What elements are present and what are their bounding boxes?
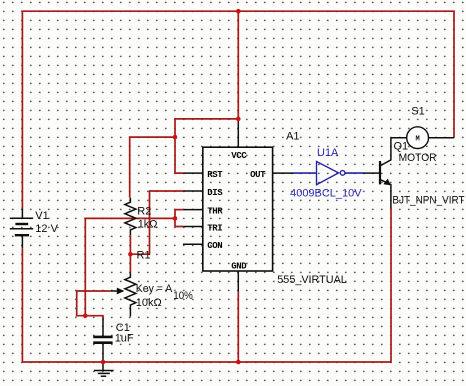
battery V1 plate short [15,223,28,225]
IC A1 555 box [203,147,273,271]
wire 555 OUT to inverter input (navy) [294,172,317,174]
wire R2 bottom to R1 top [129,235,131,272]
transistor Q1 emitter [381,180,391,209]
wire inverter output to base (navy) [345,172,364,174]
junction 555 GND bottom rail [236,360,241,365]
svg-text:12 V: 12 V [35,223,58,235]
inverter U1A triangle and bubble [317,162,345,185]
junction wiper bus node [83,313,88,318]
capacitor C1 bottom lead [102,344,104,362]
junction THR/TRI node [173,216,178,221]
battery V1 plate long bottom [10,228,33,230]
svg-text:S1: S1 [411,105,424,117]
junction top rail / VCC [236,9,241,14]
ground stub [102,362,104,371]
svg-text:MOTOR: MOTOR [399,152,437,164]
transistor Q1 collector [381,138,391,166]
pin stub RST [183,172,203,174]
capacitor C1 plate bottom [93,341,112,344]
pin stub DIS [183,190,203,192]
battery V1 bottom stub [21,235,23,248]
svg-text:R1: R1 [137,249,151,261]
svg-text:OUT: OUT [250,170,266,180]
svg-text:1uF: 1uF [115,333,134,345]
ground bar 1 [94,370,114,372]
pin stub TRI [183,226,203,228]
pin stub OUT [273,172,294,174]
junction C1 bottom rail [101,360,106,365]
motor S1 circle [407,127,429,149]
transistor Q1 base bar [379,161,381,184]
wire 555 GND to bottom rail [237,291,239,362]
wire bottom rail V1- to emitter [22,208,391,362]
motor S1 right lead [429,137,455,139]
potentiometer R1 wiper line [111,290,120,292]
svg-text:GND: GND [231,262,247,272]
svg-text:TRI: TRI [207,223,222,233]
wire DIS pin to R2/R1 junction [130,191,183,254]
junction RST node [173,135,178,140]
pin stub GND [237,271,239,291]
svg-text:BJT_NPN_VIRT: BJT_NPN_VIRT [392,195,464,207]
capacitor C1 plate top [93,336,112,339]
wire RST node to R2 top [130,137,175,198]
svg-text:1kΩ: 1kΩ [138,219,158,231]
pin stub VCC [237,121,239,148]
svg-text:M: M [415,136,419,144]
wire RST node to RST pin [175,137,183,173]
motor S1 left lead [391,137,407,139]
svg-text:A1: A1 [286,131,299,143]
wire THR-TRI bracket [175,210,183,227]
transistor Q1 base stub [364,172,380,174]
wire VCC drop from top rail [237,11,239,120]
svg-text:Q1: Q1 [394,141,409,153]
svg-text:Key = A: Key = A [136,283,173,295]
junction R2/R1 DIS node [128,252,133,257]
svg-text:DIS: DIS [207,188,223,198]
pin stub THR [183,209,203,211]
svg-text:4009BCL_10V: 4009BCL_10V [290,187,362,199]
wire top rail V1+ to right side [22,11,454,208]
potentiometer R1 wiper arrowhead [117,288,125,295]
svg-text:V1: V1 [35,210,48,222]
svg-text:10kΩ: 10kΩ [136,297,162,309]
svg-text:THR: THR [207,207,223,217]
svg-text:VCC: VCC [231,151,247,161]
svg-text:CON: CON [207,241,222,251]
pin stub CON [183,243,203,245]
svg-text:U1A: U1A [317,147,339,159]
transistor Q1 emitter arrowhead [383,179,391,186]
wire wiper loop to C1 top [77,291,111,320]
svg-text:RST: RST [207,170,223,180]
wire branch VCC node to RST node [175,119,238,137]
junction VCC branch [236,117,241,122]
capacitor C1 top lead [102,319,104,336]
ground bar 3 [101,375,106,377]
potentiometer R1 body [125,273,136,317]
battery V1 top stub [21,209,23,219]
svg-text:10%: 10% [173,290,193,302]
svg-text:555_VIRTUAL: 555_VIRTUAL [277,274,347,286]
wire THR/TRI node left to bus and down to wiper net [85,218,175,315]
resistor R2 body [125,198,136,236]
battery V1 plate long top [10,217,33,219]
svg-text:R2: R2 [137,205,151,217]
battery V1 plate short bottom [15,234,29,236]
ground bar 2 [98,372,110,374]
